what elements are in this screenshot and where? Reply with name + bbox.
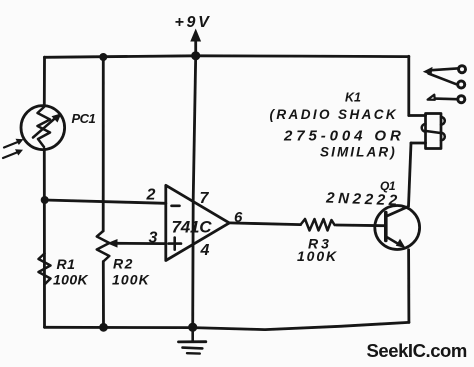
svg-text:4: 4	[200, 242, 210, 259]
svg-text:R1: R1	[57, 256, 76, 272]
svg-text:7: 7	[200, 190, 210, 207]
svg-text:R2: R2	[113, 256, 134, 272]
svg-text:100K: 100K	[112, 272, 150, 288]
svg-text:3: 3	[149, 230, 158, 247]
svg-text:100K: 100K	[53, 272, 89, 288]
svg-text:275-004 OR: 275-004 OR	[283, 128, 405, 145]
svg-text:PC1: PC1	[72, 111, 96, 126]
svg-text:2: 2	[146, 187, 156, 204]
svg-text:100K: 100K	[297, 248, 338, 264]
svg-text:SIMILAR): SIMILAR)	[320, 145, 397, 160]
svg-text:+9V: +9V	[175, 14, 212, 31]
svg-text:SeekIC.com: SeekIC.com	[367, 340, 467, 361]
svg-text:2N2222: 2N2222	[325, 189, 401, 209]
svg-text:(RADIO SHACK: (RADIO SHACK	[270, 107, 399, 122]
svg-text:6: 6	[234, 209, 243, 226]
svg-text:741C: 741C	[172, 218, 213, 237]
svg-text:K1: K1	[345, 91, 361, 105]
